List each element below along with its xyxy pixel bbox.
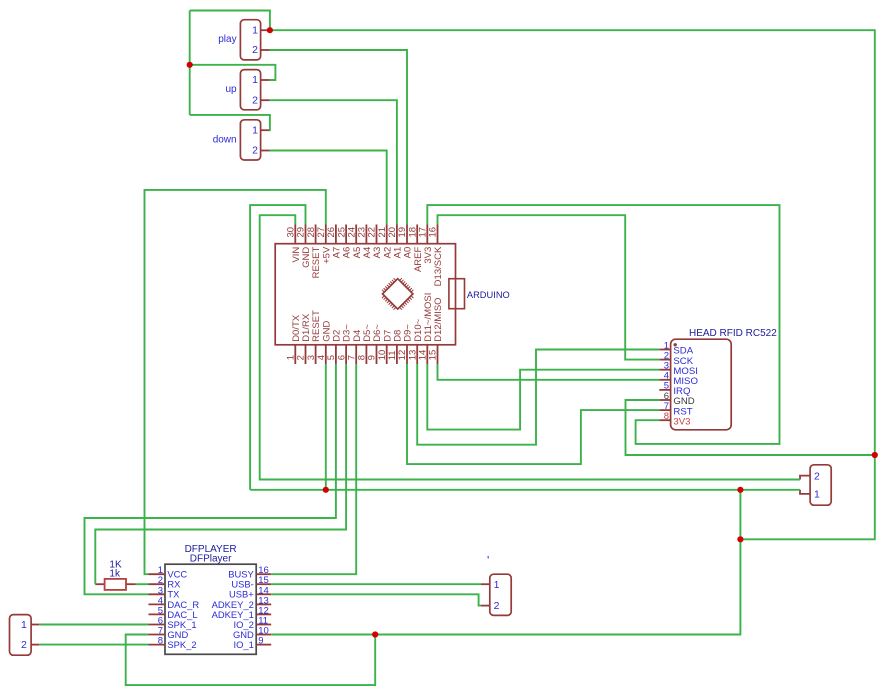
wire D11/MOSI (pin 14) to RFID MOSI [427, 364, 659, 430]
pin 13 (ARDUINO bottom D10~) [416, 345, 418, 364]
svg-text:play: play [218, 34, 236, 45]
pin 15 (ARDUINO bottom D12/MISO) [437, 345, 439, 364]
connector P? power (right, pins 2,1) [800, 465, 831, 505]
junction node DFPlayer GND [372, 631, 378, 637]
pin 16 (ARDUINO top D13/SCK) [437, 225, 439, 244]
junction node play pin1 [267, 27, 273, 33]
pin 14 (DFPlayer USB+) [256, 593, 271, 595]
svg-text:2: 2 [252, 145, 258, 157]
pin 9 (ARDUINO bottom D6~) [376, 345, 378, 364]
svg-text:1k: 1k [109, 569, 121, 580]
svg-text:DFPlayer: DFPlayer [190, 554, 232, 565]
svg-text:up: up [225, 84, 237, 95]
svg-text:1: 1 [21, 619, 27, 631]
pin 13 (DFPlayer ADKEY_2) [256, 603, 271, 605]
pin 2 (DFPlayer RX) [149, 583, 166, 585]
wire button pin1 bus top [190, 11, 270, 31]
pin 2 (RFID SCK) [659, 359, 670, 361]
svg-text:16: 16 [428, 227, 439, 238]
pin 7 (RFID RST) [659, 409, 670, 411]
pin 15 (DFPlayer USB-) [256, 583, 271, 585]
pin 9 (DFPlayer IO_1) [256, 644, 271, 646]
svg-text:1: 1 [814, 489, 820, 501]
wire up pin1 loop [190, 65, 276, 80]
pin 23 (ARDUINO top A4) [365, 225, 367, 244]
svg-text:8: 8 [158, 636, 163, 647]
pin 6 (RFID GND) [659, 399, 670, 401]
wire GND (pin 29) down left side [250, 205, 305, 490]
svg-text:3V3: 3V3 [673, 416, 690, 427]
svg-text:IO_1: IO_1 [233, 639, 253, 650]
connector button "play" [218, 20, 269, 60]
pin 3 (DFPlayer TX) [149, 593, 166, 595]
IC chip symbol inside ARDUINO [382, 278, 413, 309]
pin 27 (ARDUINO top +5V) [325, 225, 327, 244]
connector button "up" [225, 70, 269, 110]
pin 29 (ARDUINO top GND) [305, 225, 307, 244]
pin 4 (RFID MISO) [659, 379, 670, 381]
pin 3 (RFID MOSI) [659, 369, 670, 371]
wire GND row to power pin 1 [250, 489, 800, 491]
pin 7 (ARDUINO bottom D4) [355, 345, 357, 364]
wire D13/SCK (pin 16) to RFID SCK [438, 215, 660, 359]
pin 16 (DFPlayer BUSY) [256, 573, 271, 575]
pin 22 (ARDUINO top A3) [376, 225, 378, 244]
junction node GND rail right lower [737, 536, 743, 542]
pin 25 (ARDUINO top A6) [345, 225, 347, 244]
wire DFPlayer USB+ to USB pin 2 [271, 594, 481, 605]
pin 1 (RFID SDA) [659, 349, 670, 351]
svg-text:2: 2 [252, 44, 258, 56]
pin 5 (DFPlayer DAC_L) [149, 613, 166, 615]
pin 24 (ARDUINO top A5) [355, 225, 357, 244]
pin 6 (DFPlayer SPK_1) [149, 624, 166, 626]
pin 21 (ARDUINO top A2) [386, 225, 388, 244]
connector button "down" [213, 120, 270, 160]
wire DFPlayer USB- to USB pin 1 [271, 583, 481, 585]
pin 1 (ARDUINO bottom D0/TX) [294, 345, 296, 364]
pin 28 (ARDUINO top RESET) [315, 225, 317, 244]
IC U? HEAD RFID RC522 [671, 328, 778, 430]
pin 7 (DFPlayer GND) [149, 634, 166, 636]
wire D3 (pin 6) to resistor R1 [95, 364, 346, 584]
wire D9 (pin 12) to RFID RST [407, 364, 659, 464]
op-amp U? : ARDUINO module body [275, 244, 455, 345]
svg-text:D13/SCK: D13/SCK [433, 246, 444, 286]
wire 3V3 (pin 17) to RFID 3V3 [427, 205, 779, 444]
wire up pin2 to A1 (pin 20) [269, 100, 397, 224]
pin 1 (DFPlayer VCC) [149, 573, 166, 575]
pin 8 (DFPlayer SPK_2) [149, 644, 166, 646]
resistor R1 value 1K / 1k [95, 559, 148, 590]
wire D12/MISO (pin 15) to RFID MISO [438, 364, 660, 380]
svg-text:1: 1 [252, 74, 258, 86]
pin 4 (DFPlayer DAC_R) [149, 603, 166, 605]
junction node GND column x pin4 [323, 487, 329, 493]
ARDUINO side tab and name label [449, 279, 510, 309]
wire D4 (pin 7) to DFPlayer BUSY [271, 364, 356, 574]
svg-text:HEAD RFID RC522: HEAD RFID RC522 [689, 328, 777, 339]
svg-text:SPK_2: SPK_2 [167, 639, 196, 650]
wire play pin1 to GND rail (right edge) [269, 30, 874, 539]
svg-text:D12/MISO: D12/MISO [433, 297, 444, 341]
svg-text:15: 15 [428, 350, 439, 361]
pin 20 (ARDUINO top A1) [396, 225, 398, 244]
svg-text:down: down [213, 134, 237, 145]
pin 17 (ARDUINO top 3V3) [426, 225, 428, 244]
junction node GND rail right [737, 487, 743, 493]
junction node RFID GND rail [872, 452, 878, 458]
pin 6 (ARDUINO bottom D3~) [345, 345, 347, 364]
pin 14 (ARDUINO bottom D11~/MOSI) [426, 345, 428, 364]
svg-text:8: 8 [664, 411, 669, 422]
svg-text:1: 1 [252, 24, 258, 36]
pin 26 (ARDUINO top A7) [335, 225, 337, 244]
junction node buttons pin1 bus [187, 62, 193, 68]
pin 11 (DFPlayer IO_2) [256, 624, 271, 626]
pin 8 (ARDUINO bottom D5~) [365, 345, 367, 364]
pin 4 (ARDUINO bottom GND) [325, 345, 327, 364]
pin 19 (ARDUINO top A0) [406, 225, 408, 244]
wire play pin2 to A0 (pin 19) [269, 50, 407, 225]
wire DFPlayer GND (pin 10) to GND rail [271, 490, 740, 635]
pin 18 (ARDUINO top AREF) [416, 225, 418, 244]
connector P? speaker (left) [10, 615, 40, 656]
wire button pin1 bus left vertical [189, 11, 191, 115]
wire speaker pin1 to SPK_1 [39, 624, 148, 626]
pin 10 (ARDUINO bottom D7) [386, 345, 388, 364]
svg-text:2: 2 [814, 470, 820, 482]
wire VIN (pin 30) to power pin 2 [260, 215, 800, 479]
pin 3 (ARDUINO bottom RESET) [315, 345, 317, 364]
pin 30 (ARDUINO top VIN) [294, 225, 296, 244]
pin 8 (RFID 3V3) [659, 419, 670, 421]
wire DFPlayer GND loop bottom [126, 635, 376, 686]
wire +5V (pin 27) to DFPlayer VCC [145, 190, 326, 574]
svg-text:1: 1 [494, 579, 500, 591]
wire GND (pin 4) to GND row [325, 364, 327, 490]
pin 11 (ARDUINO bottom D8) [396, 345, 398, 364]
wire down pin2 to A2 (pin 21) [269, 151, 386, 225]
wire RFID GND to right GND rail [626, 400, 875, 455]
svg-text:': ' [487, 554, 489, 568]
wire D10 (pin 13) to RFID SDA [417, 350, 659, 445]
pin 5 (ARDUINO bottom D2) [335, 345, 337, 364]
pin 5 (RFID IRQ) [659, 389, 670, 391]
IC U? DFPLAYER (DFPlayer) [165, 544, 256, 654]
svg-text:9: 9 [258, 636, 263, 647]
svg-text:1: 1 [252, 124, 258, 136]
connector P? USB (pins 1,2) [481, 554, 511, 616]
svg-text:ARDUINO: ARDUINO [467, 290, 510, 300]
pin 12 (ARDUINO bottom D9~) [406, 345, 408, 364]
pin 10 (DFPlayer GND) [256, 634, 271, 636]
wire speaker pin2 to SPK_2 [39, 644, 148, 646]
wire down pin1 loop [190, 115, 270, 130]
svg-text:2: 2 [494, 600, 500, 612]
pin 12 (DFPlayer ADKEY_1) [256, 613, 271, 615]
svg-text:2: 2 [21, 639, 27, 651]
pin 2 (ARDUINO bottom D1/RX) [305, 345, 307, 364]
wire D2 (pin 5) to DFPlayer TX [85, 364, 336, 594]
svg-text:2: 2 [252, 94, 258, 106]
